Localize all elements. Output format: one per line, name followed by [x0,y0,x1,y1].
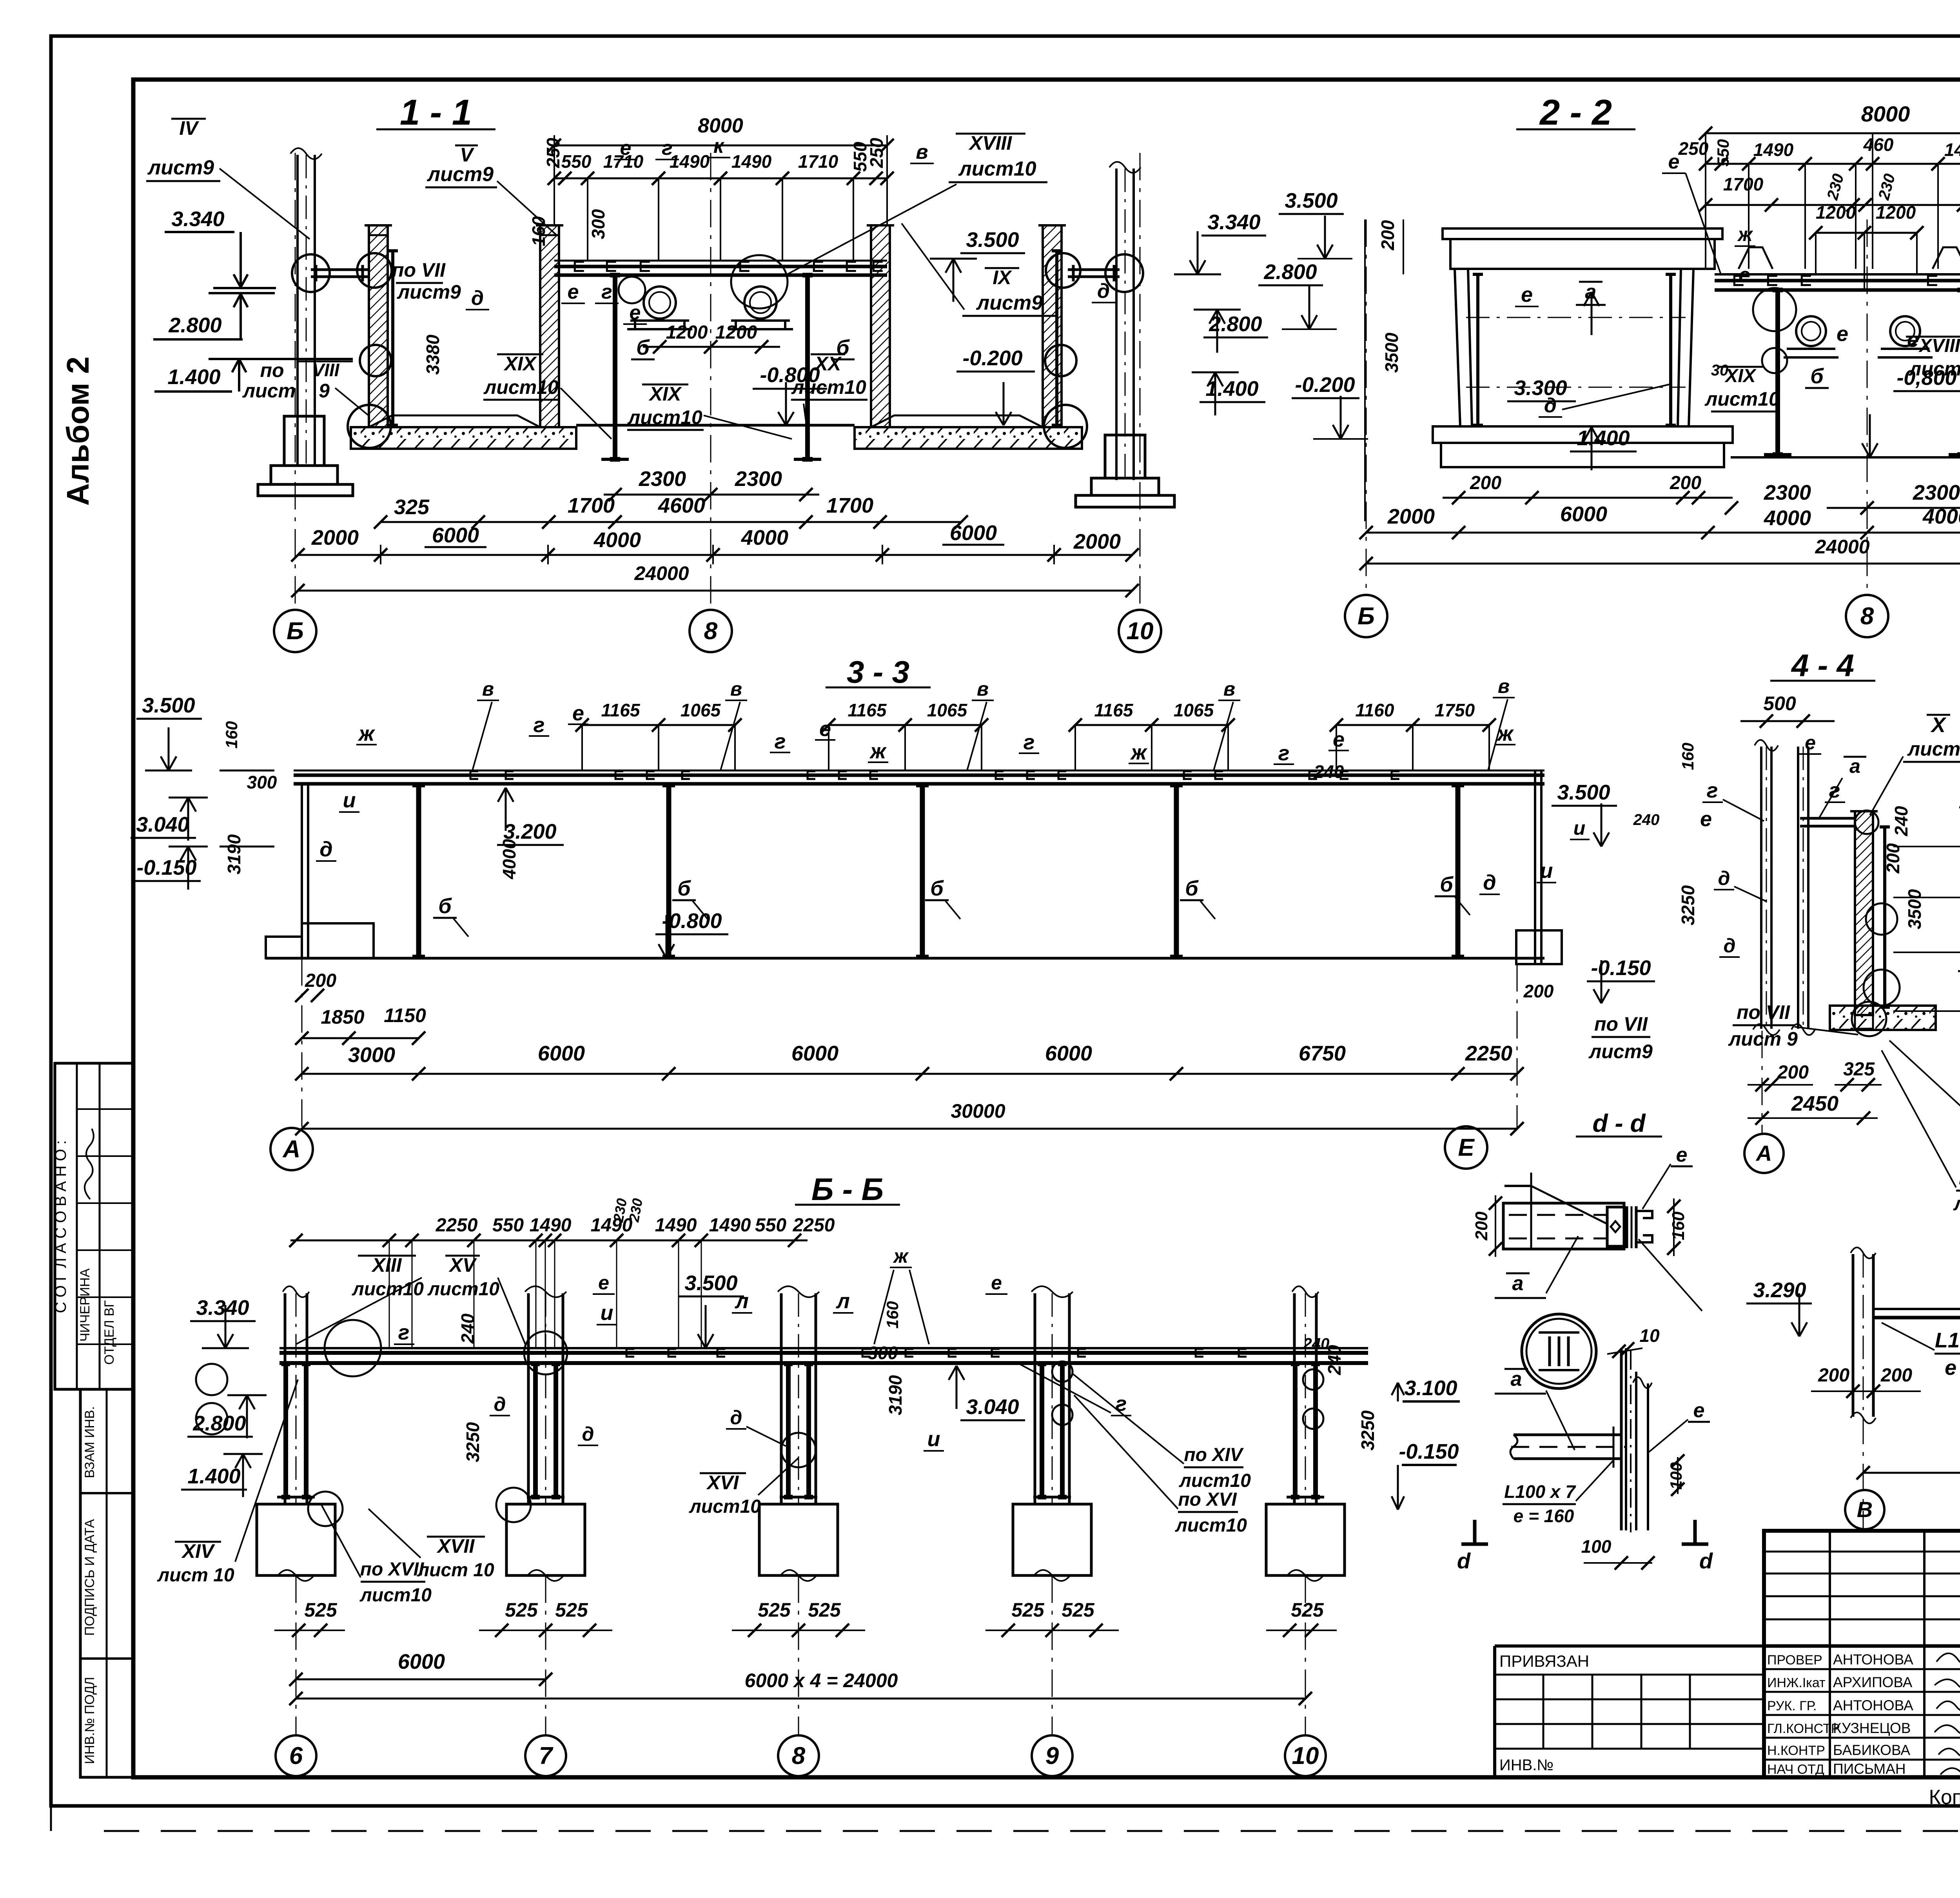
svg-text:325: 325 [394,495,430,519]
svg-text:30000: 30000 [951,1100,1005,1122]
svg-text:г: г [775,730,786,753]
svg-text:6000 х 4 = 24000: 6000 х 4 = 24000 [745,1670,898,1691]
section B-B [157,1172,1378,1776]
svg-text:240: 240 [1633,811,1660,828]
svg-text:240: 240 [1891,806,1911,836]
svg-text:3.500: 3.500 [142,694,195,717]
svg-text:200: 200 [1777,1062,1809,1083]
svg-text:г: г [398,1321,410,1344]
svg-text:по XVI: по XVI [1178,1489,1237,1510]
svg-text:-0,800: -0,800 [1896,366,1956,390]
svg-text:лист: лист [242,380,296,402]
svg-text:С О Г Л А С О В А Н О :: С О Г Л А С О В А Н О : [52,1140,69,1313]
svg-text:по VII: по VII [1594,1013,1648,1035]
svg-text:е: е [630,301,641,324]
svg-text:ПРИВЯЗАН: ПРИВЯЗАН [1499,1652,1589,1670]
svg-text:2 - 2: 2 - 2 [1539,92,1612,132]
svg-text:д: д [1544,394,1557,417]
svg-text:а: а [1511,1368,1522,1390]
svg-text:А: А [1755,1141,1772,1166]
svg-text:д: д [1718,867,1730,889]
svg-text:550: 550 [1714,139,1732,167]
svg-text:4000: 4000 [1922,505,1960,528]
svg-text:в: в [977,678,989,700]
svg-text:1.400: 1.400 [1205,377,1258,401]
svg-text:е: е [1837,322,1848,346]
svg-text:б: б [677,877,691,900]
svg-text:ГЛ.КОНСТР: ГЛ.КОНСТР [1767,1721,1840,1736]
svg-text:е: е [1907,328,1919,352]
svg-text:лист10: лист10 [1704,388,1780,410]
svg-text:д: д [730,1407,742,1428]
svg-text:550: 550 [755,1215,786,1236]
svg-text:Н.КОНТР: Н.КОНТР [1767,1743,1825,1758]
svg-text:в: в [1498,675,1510,697]
svg-text:4600: 4600 [658,494,705,517]
svg-text:24000: 24000 [1815,536,1869,558]
svg-text:е: е [1521,283,1533,306]
svg-text:1850: 1850 [321,1006,364,1028]
svg-text:3.290: 3.290 [1753,1278,1806,1302]
svg-text:б: б [636,336,650,359]
svg-text:VIII: VIII [312,360,339,380]
svg-text:Альбом 2: Альбом 2 [60,357,95,506]
svg-text:лист9: лист9 [426,163,494,186]
svg-text:200: 200 [1883,843,1903,874]
svg-text:240: 240 [457,1313,478,1344]
svg-text:1160: 1160 [1356,700,1394,720]
svg-text:по: по [260,359,284,381]
svg-text:6000: 6000 [950,521,997,545]
svg-text:L100 х 7: L100 х 7 [1504,1481,1576,1502]
svg-text:1200: 1200 [1876,202,1916,223]
svg-text:XIX: XIX [648,383,682,405]
svg-text:2.800: 2.800 [168,314,221,337]
svg-text:325: 325 [1843,1059,1875,1080]
svg-text:е: е [1700,807,1712,831]
svg-text:1710: 1710 [798,151,838,172]
svg-text:L160 х10: L160 х10 [1935,1329,1960,1352]
svg-text:240: 240 [1303,1335,1330,1352]
svg-text:д: д [1097,280,1110,303]
svg-text:525: 525 [758,1599,791,1621]
svg-text:д: д [582,1423,594,1445]
svg-text:лист 10: лист 10 [157,1565,234,1586]
svg-text:д: д [471,287,484,310]
svg-text:а: а [1849,755,1860,777]
svg-text:ИНВ.№ ПОДЛ: ИНВ.№ ПОДЛ [82,1677,97,1764]
svg-text:лист 10: лист 10 [417,1560,494,1581]
svg-text:200: 200 [1670,473,1701,493]
svg-text:4000: 4000 [741,526,788,549]
svg-text:лист10: лист10 [427,1279,499,1300]
svg-text:4000: 4000 [593,528,641,552]
svg-text:д: д [494,1393,506,1415]
title block [1495,1531,1960,1836]
svg-text:к: к [713,135,725,158]
svg-text:ж: ж [869,740,887,763]
svg-text:3.340: 3.340 [171,207,224,231]
svg-text:1700: 1700 [826,494,873,517]
svg-text:КУЗНЕЦОВ: КУЗНЕЦОВ [1833,1720,1911,1736]
svg-text:200: 200 [1880,1365,1912,1386]
svg-text:XV: XV [448,1254,477,1276]
svg-text:ВЗАМ ИНВ.: ВЗАМ ИНВ. [82,1406,97,1478]
svg-text:525: 525 [304,1599,338,1621]
svg-text:БАБИКОВА: БАБИКОВА [1833,1742,1910,1758]
svg-text:и: и [601,1301,613,1325]
svg-text:240: 240 [1314,761,1344,782]
svg-text:3.040: 3.040 [136,813,189,836]
svg-text:XVI: XVI [706,1472,739,1494]
svg-text:3250: 3250 [1357,1410,1378,1450]
svg-text:е: е [572,702,584,725]
svg-text:лист9: лист9 [147,156,214,179]
svg-text:лист10: лист10 [483,376,559,398]
svg-text:8: 8 [792,1742,806,1769]
svg-text:е: е [620,137,632,160]
svg-text:XIV: XIV [181,1540,215,1562]
svg-text:1 - 1: 1 - 1 [400,92,472,132]
svg-text:300: 300 [588,209,608,239]
svg-text:-0.200: -0.200 [1295,373,1355,397]
svg-text:250: 250 [1678,138,1709,159]
svg-text:-0.150: -0.150 [1591,956,1651,980]
svg-text:-0.800: -0.800 [662,909,722,933]
svg-text:300: 300 [868,1343,898,1363]
svg-text:е: е [1693,1399,1705,1422]
svg-text:525: 525 [555,1599,588,1621]
svg-text:2250: 2250 [793,1215,835,1236]
svg-text:1200: 1200 [1816,202,1856,223]
svg-text:1490: 1490 [530,1215,572,1236]
svg-text:3.340: 3.340 [1207,210,1260,234]
svg-text:525: 525 [1011,1599,1045,1621]
section 1-1 [146,92,1268,652]
svg-text:РУК. ГР.: РУК. ГР. [1767,1699,1817,1713]
svg-text:6: 6 [289,1742,303,1769]
svg-text:4000: 4000 [499,839,519,879]
left margin tables and album label [52,357,133,1777]
svg-text:ж: ж [358,722,376,745]
svg-text:4 - 4: 4 - 4 [1791,648,1854,683]
svg-text:1165: 1165 [848,700,887,720]
svg-text:XVII: XVII [436,1535,475,1557]
svg-text:3.340: 3.340 [196,1296,249,1320]
svg-text:8: 8 [1860,603,1874,630]
svg-text:АРХИПОВА: АРХИПОВА [1833,1674,1913,1690]
svg-text:г: г [1707,779,1718,802]
svg-text:100: 100 [1581,1536,1612,1557]
svg-text:1750: 1750 [1435,700,1475,720]
svg-text:8000: 8000 [1861,102,1910,126]
svg-text:525: 525 [1062,1599,1095,1621]
svg-text:1065: 1065 [1174,700,1214,720]
svg-text:б: б [1440,873,1454,896]
svg-text:в: в [916,141,928,163]
svg-text:525: 525 [505,1599,538,1621]
sections 4-4 and 5-5 [1700,648,1960,1215]
svg-text:а: а [1512,1272,1524,1295]
svg-text:по XVII: по XVII [360,1559,425,1580]
svg-text:160: 160 [1669,1211,1688,1240]
svg-text:3.500: 3.500 [1557,781,1610,804]
svg-text:е: е [598,1272,609,1294]
svg-text:лист9: лист9 [976,292,1043,314]
svg-text:d: d [1699,1548,1713,1573]
svg-text:500: 500 [1763,692,1796,714]
svg-text:XVIII: XVIII [968,132,1012,154]
svg-text:г: г [601,281,612,303]
svg-text:лист10: лист10 [958,158,1036,180]
svg-text:2250: 2250 [436,1215,478,1236]
svg-text:3.040: 3.040 [966,1395,1019,1419]
svg-text:1490: 1490 [709,1215,751,1236]
svg-text:Копировал: Коршунова: Копировал: Коршунова [1929,1786,1960,1809]
svg-text:е: е [1676,1144,1688,1166]
svg-text:10: 10 [1292,1742,1319,1769]
svg-text:г: г [1024,731,1035,754]
svg-text:1150: 1150 [384,1004,426,1026]
svg-text:д: д [319,838,332,861]
svg-text:лист 9: лист 9 [1728,1028,1798,1050]
section 7-7 [1746,1178,1960,1531]
svg-text:3250: 3250 [1678,885,1698,925]
svg-text:IV: IV [179,117,199,139]
svg-text:а: а [1585,281,1597,303]
svg-text:б: б [1185,877,1199,900]
svg-text:200: 200 [1472,1211,1491,1241]
svg-text:-0.200: -0.200 [962,346,1022,370]
svg-text:2000: 2000 [1073,530,1121,553]
svg-text:е = 200: е = 200 [1945,1356,1960,1380]
svg-text:Б: Б [287,618,304,645]
svg-text:лист9: лист9 [397,281,461,303]
svg-text:ж: ж [1737,223,1753,245]
svg-text:лист10: лист10 [627,406,702,428]
svg-text:д: д [1483,871,1496,894]
detail d-d and node III [1392,1109,1713,1573]
svg-text:е: е [1333,728,1345,751]
svg-text:е: е [1739,263,1750,287]
svg-text:и: и [343,789,356,812]
svg-text:б: б [1810,364,1824,388]
svg-text:ж: ж [893,1245,909,1267]
svg-text:200: 200 [1818,1365,1849,1386]
svg-text:Е: Е [1458,1134,1475,1161]
svg-text:250: 250 [543,138,563,168]
svg-text:3500: 3500 [1904,889,1925,929]
svg-text:3.500: 3.500 [684,1271,737,1295]
section 3-3 [131,654,1698,1170]
svg-text:е: е [1668,150,1680,173]
svg-text:в: в [730,678,742,700]
svg-text:d: d [1457,1548,1471,1573]
svg-text:9: 9 [1045,1742,1059,1769]
svg-text:-0.150: -0.150 [1399,1440,1459,1463]
svg-text:200: 200 [1523,981,1554,1001]
svg-text:ПРОВЕР: ПРОВЕР [1767,1653,1822,1668]
svg-text:в: в [1223,678,1235,700]
svg-text:АНТОНОВА: АНТОНОВА [1833,1697,1913,1713]
svg-text:ПОДПИСЬ И ДАТА: ПОДПИСЬ И ДАТА [82,1519,97,1636]
svg-text:10: 10 [1127,618,1154,645]
svg-text:8: 8 [704,618,718,645]
svg-text:1165: 1165 [1094,700,1134,720]
svg-text:АНТОНОВА: АНТОНОВА [1833,1651,1913,1668]
svg-text:160: 160 [222,721,241,749]
svg-text:9: 9 [319,380,330,402]
svg-text:550: 550 [561,151,592,172]
svg-text:7: 7 [539,1742,554,1769]
svg-text:1200: 1200 [715,322,757,343]
svg-text:10: 10 [1639,1325,1660,1346]
svg-text:НАЧ ОТД: НАЧ ОТД [1767,1762,1824,1777]
svg-text:2300: 2300 [1913,481,1960,504]
svg-text:по VII: по VII [392,259,446,281]
svg-text:2250: 2250 [1465,1042,1512,1065]
svg-text:г: г [1829,779,1840,802]
svg-text:160: 160 [528,216,549,246]
svg-text:е = 160: е = 160 [1514,1506,1574,1526]
svg-text:525: 525 [1291,1599,1324,1621]
svg-text:1200: 1200 [666,322,708,343]
svg-text:200: 200 [1470,473,1501,493]
svg-text:3.500: 3.500 [966,228,1019,252]
svg-text:3.500: 3.500 [1285,189,1338,212]
svg-text:б: б [438,894,452,918]
svg-text:6750: 6750 [1299,1042,1346,1065]
svg-text:550: 550 [492,1215,524,1236]
svg-text:1490: 1490 [1944,140,1960,160]
svg-text:1490: 1490 [731,151,772,172]
svg-text:1490: 1490 [670,151,710,172]
svg-text:6000: 6000 [398,1650,445,1673]
svg-text:1490: 1490 [1753,140,1794,160]
svg-text:лист10: лист10 [689,1496,761,1517]
svg-text:и: и [1573,817,1586,839]
svg-text:XVIII: XVIII [1918,335,1960,356]
svg-text:24000: 24000 [634,562,689,584]
svg-text:б: б [930,877,944,900]
svg-text:300: 300 [247,772,277,792]
svg-text:ж: ж [1496,722,1514,745]
svg-text:30: 30 [1711,362,1729,379]
svg-text:1065: 1065 [927,700,968,720]
svg-text:6000: 6000 [1045,1042,1092,1065]
svg-text:2.800: 2.800 [1263,260,1317,284]
svg-text:6000: 6000 [791,1042,838,1065]
svg-text:лист10: лист10 [359,1585,432,1606]
svg-text:лист9: лист9 [1588,1041,1653,1062]
svg-text:3190: 3190 [885,1375,906,1415]
svg-text:ОТДЕЛ ВГ: ОТДЕЛ ВГ [102,1300,117,1365]
svg-text:б: б [836,336,850,359]
svg-text:3000: 3000 [348,1043,395,1067]
svg-text:d - d: d - d [1592,1109,1646,1137]
svg-text:ИНВ.№: ИНВ.№ [1499,1757,1553,1774]
svg-text:ж: ж [1130,741,1148,764]
svg-text:2450: 2450 [1791,1092,1838,1115]
svg-text:3250: 3250 [463,1422,483,1462]
svg-text:2300: 2300 [735,467,782,491]
svg-text:460: 460 [1863,134,1894,155]
svg-text:г: г [534,713,545,737]
svg-text:1.400: 1.400 [187,1465,240,1488]
svg-text:лист9: лист9 [1907,738,1960,760]
svg-text:по VII: по VII [1737,1001,1790,1023]
svg-text:6000: 6000 [538,1042,585,1065]
svg-text:-0.800: -0.800 [760,363,820,387]
svg-text:1490: 1490 [655,1215,697,1236]
svg-text:250: 250 [866,138,887,168]
svg-text:8000: 8000 [698,114,743,137]
svg-text:3 - 3: 3 - 3 [847,654,909,689]
svg-text:XIII: XIII [371,1254,402,1276]
svg-text:200: 200 [305,970,336,991]
svg-text:В: В [1857,1497,1873,1522]
svg-text:г: г [1278,741,1290,765]
svg-text:IX: IX [993,266,1012,288]
svg-text:в: в [482,678,494,700]
svg-text:200: 200 [1377,220,1398,250]
svg-text:ЧИЧЕРИНА: ЧИЧЕРИНА [78,1268,93,1341]
svg-text:2000: 2000 [1387,505,1435,528]
svg-text:1.400: 1.400 [167,365,220,389]
svg-text:и: и [1540,859,1553,883]
svg-text:XIX: XIX [503,353,537,375]
svg-text:3190: 3190 [224,834,244,874]
svg-text:XIX: XIX [1724,366,1757,386]
svg-text:л: л [835,1289,850,1313]
svg-text:лист 9: лист 9 [1953,1193,1960,1215]
svg-text:4000: 4000 [1764,506,1811,530]
svg-text:д: д [1724,935,1736,957]
section 2-2 [1258,92,1960,637]
svg-text:1065: 1065 [681,700,721,720]
svg-text:6000: 6000 [432,524,479,547]
svg-text:2300: 2300 [1764,481,1811,504]
svg-text:лист10: лист10 [1175,1515,1247,1536]
svg-text:2000: 2000 [311,526,359,549]
svg-text:3.300: 3.300 [1514,376,1567,400]
svg-text:525: 525 [808,1599,841,1621]
svg-text:Б - Б: Б - Б [811,1172,884,1207]
svg-text:г: г [662,137,673,160]
svg-text:1700: 1700 [568,494,615,517]
svg-text:160: 160 [1679,743,1697,770]
svg-text:160: 160 [883,1301,902,1329]
svg-text:V: V [460,144,474,166]
svg-text:е: е [991,1272,1002,1294]
svg-text:1700: 1700 [1723,174,1764,194]
svg-text:А: А [282,1136,301,1163]
svg-text:ПИСЬМАН: ПИСЬМАН [1833,1761,1906,1777]
svg-text:1165: 1165 [601,700,641,720]
svg-text:6000: 6000 [1560,502,1607,526]
svg-text:2300: 2300 [639,467,686,491]
svg-text:X: X [1930,713,1947,737]
svg-text:е: е [819,717,831,741]
svg-text:3.100: 3.100 [1404,1376,1457,1400]
svg-text:е: е [1805,732,1816,754]
svg-text:и: и [927,1427,940,1451]
svg-text:3380: 3380 [423,334,443,375]
svg-text:Б: Б [1357,603,1375,630]
svg-text:е: е [568,281,579,303]
svg-text:по XIV: по XIV [1184,1445,1244,1465]
svg-text:3500: 3500 [1381,332,1402,373]
